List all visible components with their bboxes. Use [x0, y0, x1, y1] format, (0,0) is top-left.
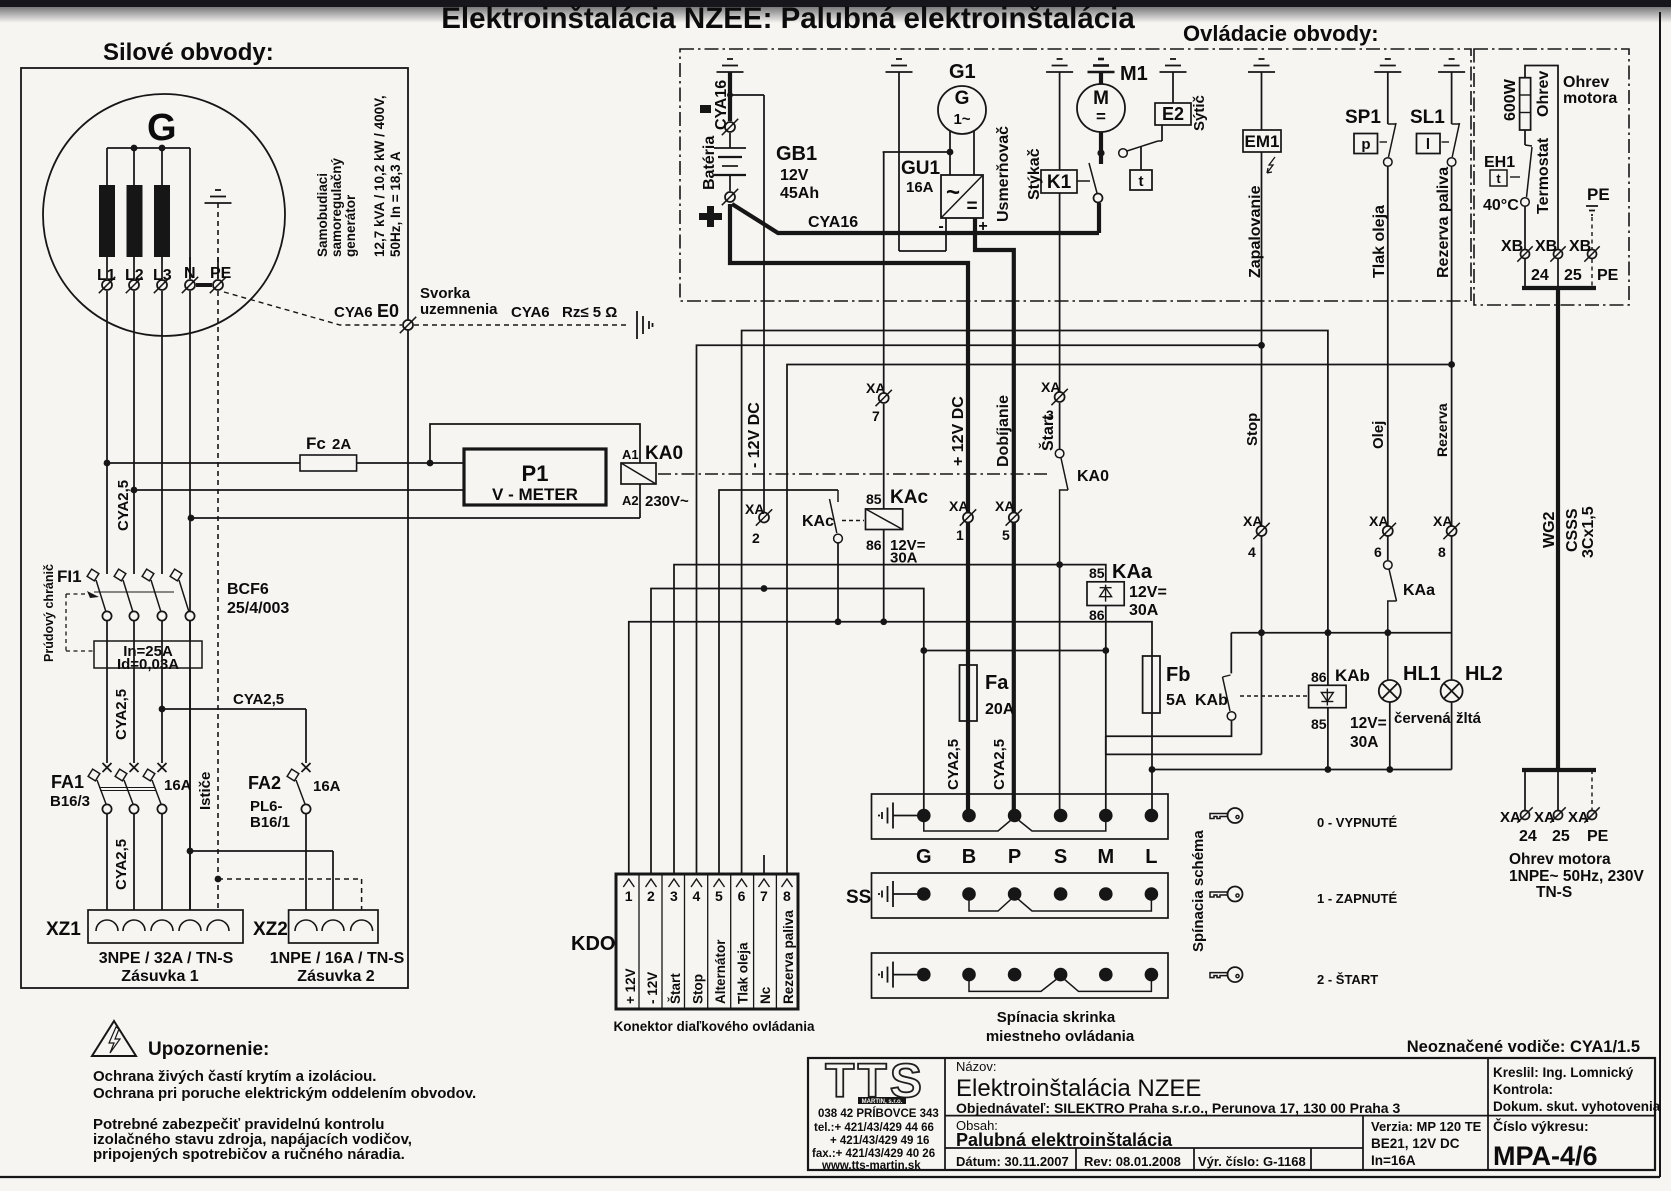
svg-text:www.tts-martin.sk: www.tts-martin.sk — [821, 1160, 921, 1172]
svg-text:4: 4 — [693, 888, 701, 904]
svg-text:86: 86 — [1089, 607, 1105, 623]
svg-text:45Ah: 45Ah — [780, 185, 819, 202]
svg-text:FA2: FA2 — [248, 773, 281, 793]
svg-text:Objednávateľ: SILEKTRO Praha s: Objednávateľ: SILEKTRO Praha s.r.o., Per… — [956, 1100, 1400, 1116]
svg-text:Silové obvody:: Silové obvody: — [103, 39, 274, 66]
svg-text:7: 7 — [872, 408, 880, 424]
svg-text:KDO: KDO — [571, 933, 615, 955]
svg-text:CYA2,5: CYA2,5 — [113, 689, 130, 740]
svg-text:230V~: 230V~ — [645, 493, 689, 510]
svg-text:Dokum. skut. vyhotovenia: Dokum. skut. vyhotovenia — [1493, 1099, 1661, 1114]
svg-text:Fb: Fb — [1166, 664, 1190, 686]
svg-text:L1: L1 — [97, 267, 116, 284]
svg-text:Rev: 08.01.2008: Rev: 08.01.2008 — [1084, 1154, 1181, 1169]
svg-text:- 12V DC: - 12V DC — [746, 402, 763, 468]
svg-text:20A: 20A — [985, 701, 1015, 718]
svg-text:Ohrev motora: Ohrev motora — [1509, 851, 1611, 868]
svg-text:25: 25 — [1552, 828, 1570, 845]
svg-text:XA: XA — [1243, 513, 1262, 529]
svg-text:SP1: SP1 — [1345, 107, 1381, 128]
svg-text:HL1: HL1 — [1403, 663, 1441, 685]
svg-text:1NPE / 16A / TN-S: 1NPE / 16A / TN-S — [270, 950, 405, 967]
svg-text:Kontrola:: Kontrola: — [1493, 1082, 1553, 1097]
svg-text:30A: 30A — [1129, 602, 1159, 619]
svg-text:+ 421/43/429 49 16: + 421/43/429 49 16 — [830, 1135, 929, 1147]
svg-text:MARTIN, s.r.o.: MARTIN, s.r.o. — [862, 1099, 903, 1105]
svg-text:PE: PE — [210, 265, 232, 282]
svg-text:žltá: žltá — [1456, 710, 1482, 727]
svg-text:miestneho ovládania: miestneho ovládania — [986, 1028, 1135, 1045]
svg-text:KA0: KA0 — [645, 443, 683, 464]
svg-text:A2: A2 — [622, 493, 639, 508]
svg-text:Ohrev: Ohrev — [1563, 74, 1609, 91]
svg-text:Sýtič: Sýtič — [1191, 95, 1208, 131]
svg-text:samoregulačný: samoregulačný — [329, 157, 344, 257]
svg-text:FA1: FA1 — [51, 772, 84, 792]
svg-text:Neoznačené vodiče: CYA1/1.5: Neoznačené vodiče: CYA1/1.5 — [1407, 1038, 1640, 1056]
svg-text:Prúdový chránič: Prúdový chránič — [42, 564, 56, 662]
svg-text:generátor: generátor — [343, 194, 358, 257]
svg-text:- 12V: - 12V — [645, 972, 660, 1004]
svg-text:TN-S: TN-S — [1536, 884, 1572, 901]
svg-text:CYA2,5: CYA2,5 — [113, 839, 130, 890]
svg-text:XZ1: XZ1 — [46, 919, 81, 940]
svg-text:PE: PE — [1587, 185, 1610, 204]
svg-text:KAa: KAa — [1112, 561, 1153, 583]
svg-text:25: 25 — [1564, 267, 1582, 284]
svg-text:XA: XA — [745, 501, 764, 517]
svg-text:6: 6 — [1374, 544, 1382, 560]
svg-text:KAa: KAa — [1403, 582, 1435, 599]
svg-text:M: M — [1097, 846, 1114, 868]
svg-text:16A: 16A — [164, 777, 192, 794]
svg-text:600W: 600W — [1502, 78, 1519, 121]
svg-text:12V: 12V — [780, 167, 809, 184]
svg-text:=: = — [1096, 107, 1106, 126]
svg-text:Olej: Olej — [1370, 421, 1387, 449]
svg-text:4: 4 — [1248, 544, 1256, 560]
svg-text:M: M — [1093, 88, 1109, 109]
svg-text:Ochrana živých častí krytím a: Ochrana živých častí krytím a izoláciou. — [93, 1068, 376, 1085]
svg-text:t: t — [1139, 173, 1144, 190]
svg-text:Upozornenie:: Upozornenie: — [148, 1039, 269, 1060]
svg-text:L2: L2 — [125, 267, 144, 284]
svg-text:Konektor diaľkového ovládania: Konektor diaľkového ovládania — [614, 1019, 815, 1034]
svg-text:16A: 16A — [906, 179, 934, 196]
svg-text:XA: XA — [1369, 513, 1388, 529]
svg-text:G: G — [955, 88, 970, 109]
svg-text:PE: PE — [1597, 267, 1619, 284]
svg-text:85: 85 — [1089, 565, 1105, 581]
svg-text:tel.:+ 421/43/429 44 66: tel.:+ 421/43/429 44 66 — [814, 1122, 934, 1134]
svg-text:Ohrev: Ohrev — [1535, 71, 1552, 117]
svg-text:Stýkač: Stýkač — [1026, 148, 1043, 200]
svg-text:24: 24 — [1531, 267, 1549, 284]
svg-text:SL1: SL1 — [1410, 107, 1445, 128]
svg-text:Dátum: 30.11.2007: Dátum: 30.11.2007 — [956, 1154, 1069, 1169]
svg-text:3: 3 — [670, 888, 678, 904]
svg-text:1NPE~ 50Hz, 230V: 1NPE~ 50Hz, 230V — [1509, 868, 1645, 885]
svg-text:+ 12V: + 12V — [623, 968, 638, 1004]
svg-text:CYA16: CYA16 — [713, 80, 730, 130]
svg-text:=: = — [966, 196, 977, 217]
svg-text:motora: motora — [1563, 90, 1617, 107]
svg-text:XA: XA — [1041, 379, 1060, 395]
svg-text:uzemnenia: uzemnenia — [420, 301, 498, 318]
svg-text:XB: XB — [1535, 238, 1557, 255]
svg-text:Elektroinštalácia NZEE: Elektroinštalácia NZEE — [956, 1075, 1201, 1102]
svg-text:-: - — [938, 218, 943, 235]
svg-text:Dobíjanie: Dobíjanie — [995, 395, 1012, 467]
svg-text:+ 12V DC: + 12V DC — [950, 396, 967, 466]
svg-text:Usmerňovač: Usmerňovač — [995, 126, 1012, 222]
svg-text:GU1: GU1 — [901, 158, 941, 179]
svg-text:12V=: 12V= — [1129, 584, 1167, 601]
svg-text:G1: G1 — [949, 61, 976, 83]
svg-text:Nc: Nc — [758, 986, 773, 1004]
svg-text:B16/3: B16/3 — [50, 793, 90, 810]
svg-text:Rz≤ 5 Ω: Rz≤ 5 Ω — [562, 304, 617, 321]
svg-text:K1: K1 — [1047, 172, 1072, 193]
svg-text:8: 8 — [783, 888, 791, 904]
svg-text:XA: XA — [1534, 809, 1555, 826]
svg-text:XA: XA — [866, 380, 885, 396]
svg-text:Samobudiaci: Samobudiaci — [315, 173, 330, 257]
svg-text:E0: E0 — [377, 301, 399, 321]
svg-text:l: l — [1426, 136, 1430, 153]
svg-text:PL6-: PL6- — [250, 798, 283, 815]
svg-text:25/4/003: 25/4/003 — [227, 600, 289, 617]
svg-text:2: 2 — [752, 530, 760, 546]
svg-text:EH1: EH1 — [1484, 154, 1515, 171]
svg-text:BE21, 12V DC: BE21, 12V DC — [1371, 1136, 1460, 1151]
svg-text:Termostat: Termostat — [1535, 137, 1552, 214]
svg-text:Kreslil: Ing. Lomnický: Kreslil: Ing. Lomnický — [1493, 1065, 1634, 1080]
svg-text:Rezerva paliva: Rezerva paliva — [781, 910, 796, 1004]
svg-text:Verzia: MP 120 TE: Verzia: MP 120 TE — [1371, 1119, 1482, 1134]
svg-text:Fc: Fc — [306, 434, 326, 453]
svg-text:XA: XA — [1500, 809, 1521, 826]
svg-text:1~: 1~ — [953, 111, 970, 128]
svg-text:8: 8 — [1438, 544, 1446, 560]
svg-text:CYA6: CYA6 — [511, 304, 550, 321]
svg-text:40°C: 40°C — [1483, 197, 1519, 214]
svg-text:p: p — [1361, 136, 1370, 153]
svg-text:P: P — [1008, 846, 1021, 868]
svg-text:Číslo výkresu:: Číslo výkresu: — [1493, 1117, 1589, 1134]
svg-text:Stop: Stop — [691, 974, 706, 1004]
svg-text:Zásuvka 2: Zásuvka 2 — [297, 968, 374, 985]
svg-text:30A: 30A — [890, 550, 918, 567]
svg-text:G: G — [147, 107, 177, 149]
svg-text:WG2: WG2 — [1541, 511, 1558, 548]
svg-text:KA0: KA0 — [1077, 468, 1109, 485]
svg-text:85: 85 — [1311, 716, 1327, 732]
svg-text:3Cx1,5: 3Cx1,5 — [1580, 506, 1597, 558]
svg-text:pripojených spotrebičov a ručn: pripojených spotrebičov a ručného náradi… — [93, 1146, 405, 1163]
svg-text:EM1: EM1 — [1245, 132, 1280, 151]
svg-text:PE: PE — [1587, 828, 1609, 845]
svg-text:XB: XB — [1569, 238, 1591, 255]
svg-text:7: 7 — [760, 888, 768, 904]
svg-text:6: 6 — [738, 888, 746, 904]
svg-text:E2: E2 — [1162, 104, 1184, 124]
svg-text:24: 24 — [1519, 828, 1537, 845]
svg-text:Spínacia schéma: Spínacia schéma — [1190, 830, 1207, 952]
svg-text:SS: SS — [846, 887, 871, 908]
svg-text:0 - VYPNUTÉ: 0 - VYPNUTÉ — [1317, 815, 1398, 830]
svg-text:CYA2,5: CYA2,5 — [115, 480, 132, 531]
svg-text:Ovládacie obvody:: Ovládacie obvody: — [1183, 21, 1379, 46]
svg-text:fax.:+ 421/43/429 40 26: fax.:+ 421/43/429 40 26 — [812, 1148, 935, 1160]
svg-text:Rezerva paliva: Rezerva paliva — [1435, 167, 1452, 278]
svg-text:038 42 PRÍBOVCE 343: 038 42 PRÍBOVCE 343 — [818, 1107, 939, 1120]
svg-text:1: 1 — [625, 888, 633, 904]
svg-text:MPA-4/6: MPA-4/6 — [1493, 1141, 1598, 1171]
svg-text:Spínacia skrinka: Spínacia skrinka — [997, 1009, 1116, 1026]
svg-text:Štart: Štart — [1038, 414, 1057, 451]
svg-text:G: G — [916, 846, 932, 868]
svg-text:50Hz, In = 18,3 A: 50Hz, In = 18,3 A — [388, 151, 403, 257]
svg-text:2: 2 — [647, 888, 655, 904]
svg-text:CYA6: CYA6 — [334, 304, 373, 321]
svg-text:CYA2,5: CYA2,5 — [233, 691, 284, 708]
svg-text:Svorka: Svorka — [420, 285, 471, 302]
svg-text:HL2: HL2 — [1465, 663, 1503, 685]
svg-text:Názov:: Názov: — [956, 1059, 996, 1074]
svg-text:KAb: KAb — [1335, 666, 1370, 685]
svg-text:2 - ŠTART: 2 - ŠTART — [1317, 972, 1378, 987]
svg-text:~: ~ — [946, 179, 960, 206]
svg-text:Id=0,03A: Id=0,03A — [117, 656, 179, 673]
svg-text:CSSS: CSSS — [1564, 508, 1581, 552]
svg-text:Zásuvka 1: Zásuvka 1 — [121, 968, 198, 985]
svg-text:1 - ZAPNUTÉ: 1 - ZAPNUTÉ — [1317, 891, 1398, 906]
svg-text:XA: XA — [1433, 513, 1452, 529]
svg-text:Rezerva: Rezerva — [1434, 403, 1450, 457]
svg-text:FI1: FI1 — [57, 567, 82, 586]
svg-text:+: + — [978, 218, 987, 235]
svg-text:1: 1 — [956, 527, 964, 543]
svg-text:Ističe: Ističe — [197, 772, 214, 810]
svg-text:5: 5 — [1002, 527, 1010, 543]
svg-text:XA: XA — [1568, 809, 1589, 826]
svg-text:CYA2,5: CYA2,5 — [945, 739, 962, 790]
svg-text:In=16A: In=16A — [1371, 1153, 1416, 1168]
svg-text:Batéria: Batéria — [701, 136, 718, 190]
svg-text:KAc: KAc — [890, 487, 928, 508]
svg-text:85: 85 — [866, 491, 882, 507]
svg-text:P1: P1 — [522, 461, 549, 486]
svg-text:Štart: Štart — [668, 973, 683, 1004]
svg-text:12V=: 12V= — [1350, 715, 1387, 732]
svg-text:Stop: Stop — [1244, 413, 1261, 446]
svg-text:12,7 kVA / 10,2 kW / 400V,: 12,7 kVA / 10,2 kW / 400V, — [372, 95, 387, 257]
svg-text:t: t — [1496, 171, 1501, 186]
svg-text:Elektroinštalácia NZEE: Palubn: Elektroinštalácia NZEE: Palubná elektroi… — [441, 2, 1135, 35]
svg-text:M1: M1 — [1120, 63, 1148, 85]
svg-text:CYA2,5: CYA2,5 — [991, 739, 1008, 790]
svg-text:L3: L3 — [153, 267, 172, 284]
svg-text:L: L — [1145, 846, 1157, 868]
svg-text:V - METER: V - METER — [492, 485, 578, 504]
svg-text:3NPE / 32A / TN-S: 3NPE / 32A / TN-S — [99, 950, 234, 967]
svg-text:16A: 16A — [313, 778, 341, 795]
svg-text:Ochrana pri poruche elektrický: Ochrana pri poruche elektrickým oddelení… — [93, 1085, 476, 1102]
svg-text:30A: 30A — [1350, 734, 1378, 751]
svg-text:Fa: Fa — [985, 672, 1009, 694]
svg-text:N: N — [184, 265, 196, 282]
svg-text:A1: A1 — [622, 447, 639, 462]
svg-text:Palubná elektroinštalácia: Palubná elektroinštalácia — [956, 1130, 1173, 1150]
svg-text:B: B — [962, 846, 976, 868]
svg-text:XA: XA — [949, 498, 968, 514]
svg-text:86: 86 — [866, 537, 882, 553]
svg-text:CYA16: CYA16 — [808, 214, 858, 231]
svg-text:KAb: KAb — [1195, 692, 1228, 709]
svg-text:Tlak oleja: Tlak oleja — [736, 942, 751, 1004]
svg-text:XB: XB — [1501, 238, 1523, 255]
svg-text:Zapalovanie: Zapalovanie — [1247, 185, 1264, 278]
svg-text:Tlak oleja: Tlak oleja — [1371, 205, 1388, 278]
svg-text:2A: 2A — [332, 436, 351, 453]
svg-text:Alternátor: Alternátor — [713, 939, 728, 1004]
svg-text:XA: XA — [995, 498, 1014, 514]
svg-text:5: 5 — [715, 888, 723, 904]
svg-text:86: 86 — [1311, 669, 1327, 685]
svg-text:S: S — [1054, 846, 1067, 868]
svg-text:Výr. číslo: G-1168: Výr. číslo: G-1168 — [1198, 1154, 1306, 1169]
svg-text:5A: 5A — [1166, 692, 1187, 709]
svg-text:červená: červená — [1394, 710, 1451, 727]
svg-text:KAc: KAc — [802, 513, 834, 530]
svg-text:XZ2: XZ2 — [253, 919, 288, 940]
svg-text:GB1: GB1 — [776, 143, 817, 165]
svg-text:BCF6: BCF6 — [227, 581, 269, 598]
svg-text:B16/1: B16/1 — [250, 814, 290, 831]
